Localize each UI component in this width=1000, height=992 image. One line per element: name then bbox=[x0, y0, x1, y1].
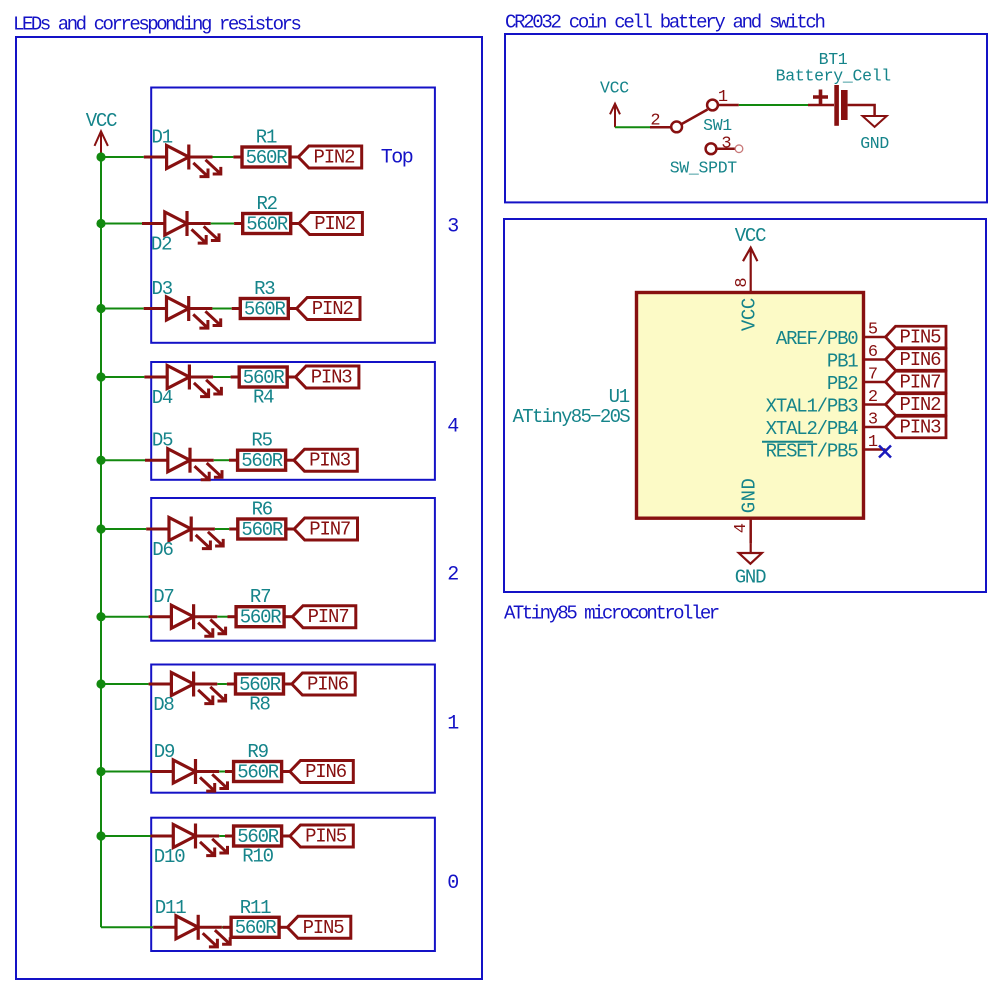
pin 5 (AREF/PB0) stub bbox=[864, 336, 886, 339]
pin 7 (PB2) stub bbox=[864, 381, 886, 384]
svg-text:Top: Top bbox=[381, 147, 413, 170]
svg-text:560R: 560R bbox=[241, 519, 283, 541]
svg-text:D8: D8 bbox=[153, 694, 174, 716]
svg-text:D9: D9 bbox=[154, 741, 175, 763]
wire R6 to global label bbox=[286, 528, 294, 531]
svg-text:4: 4 bbox=[447, 416, 458, 439]
svg-text:PIN6: PIN6 bbox=[900, 349, 942, 371]
svg-text:D11: D11 bbox=[155, 897, 186, 919]
pin 1 (RESET/PB5) stub bbox=[864, 448, 886, 451]
svg-text:ATtiny85 microcontroller: ATtiny85 microcontroller bbox=[504, 603, 719, 625]
svg-text:560R: 560R bbox=[246, 147, 288, 169]
svg-text:XTAL1/PB3: XTAL1/PB3 bbox=[766, 396, 859, 418]
svg-text:SW_SPDT: SW_SPDT bbox=[670, 159, 738, 178]
wire D5 to R5 bbox=[214, 459, 229, 461]
wire D11 to R11 bbox=[221, 926, 224, 928]
svg-text:LEDs and corresponding resisto: LEDs and corresponding resistors bbox=[13, 14, 301, 36]
LED D8 bbox=[149, 672, 226, 704]
LED D7 bbox=[149, 604, 226, 636]
wire D7 to R7 bbox=[217, 616, 227, 618]
wire VCC rail to D6 bbox=[101, 528, 146, 530]
global label PIN2 (ATtiny) bbox=[886, 394, 947, 416]
svg-text:PIN3: PIN3 bbox=[309, 450, 351, 472]
svg-text:R4: R4 bbox=[253, 387, 274, 409]
svg-text:U1: U1 bbox=[609, 386, 630, 408]
pin 6 (PB1) stub bbox=[864, 358, 886, 361]
wire R10 to global label bbox=[282, 835, 290, 838]
svg-text:R9: R9 bbox=[247, 741, 268, 763]
svg-text:C: C bbox=[739, 298, 761, 309]
svg-text:PIN3: PIN3 bbox=[900, 417, 942, 439]
resistor R7 bbox=[228, 615, 237, 618]
svg-text:560R: 560R bbox=[237, 826, 279, 848]
LED D1 bbox=[144, 145, 221, 177]
global label PIN3 (ATtiny) bbox=[886, 416, 947, 438]
wire R9 to global label bbox=[282, 770, 290, 773]
SW1 pin3 open end bbox=[735, 145, 743, 153]
svg-text:PIN6: PIN6 bbox=[305, 761, 347, 783]
wire R11 to global label bbox=[279, 926, 287, 929]
outer graphic box (ATtiny sheet) bbox=[504, 219, 986, 592]
svg-text:PIN2: PIN2 bbox=[314, 147, 356, 169]
svg-text:Battery_Cell: Battery_Cell bbox=[776, 67, 891, 86]
svg-text:560R: 560R bbox=[243, 367, 285, 389]
wire VCC rail to D1 bbox=[101, 156, 144, 158]
svg-text:PIN7: PIN7 bbox=[900, 372, 941, 394]
wire D3 to R3 bbox=[212, 308, 231, 310]
junction node row D9 bbox=[96, 767, 105, 776]
junction node row D1 bbox=[96, 152, 105, 161]
global label PIN5 (ATtiny) bbox=[886, 326, 947, 348]
pin 4 stub (GND) bbox=[749, 518, 752, 543]
svg-text:VCC: VCC bbox=[735, 225, 766, 247]
pin 3 (XTAL2/PB4) stub bbox=[864, 426, 886, 429]
svg-text:560R: 560R bbox=[244, 298, 286, 320]
outer graphic box (LED sheet) bbox=[16, 37, 482, 979]
svg-text:R6: R6 bbox=[252, 499, 273, 521]
resistor R3 bbox=[232, 307, 241, 310]
wire VCC rail to D11 bbox=[101, 926, 153, 928]
svg-text:1: 1 bbox=[868, 433, 878, 452]
svg-text:C: C bbox=[739, 309, 761, 320]
wire R7 to global label bbox=[284, 615, 292, 618]
svg-text:4: 4 bbox=[732, 523, 751, 533]
svg-text:PB2: PB2 bbox=[827, 373, 858, 395]
svg-text:D2: D2 bbox=[151, 234, 172, 256]
global label PIN3 (row D5) bbox=[294, 449, 357, 471]
LED D5 bbox=[145, 448, 222, 480]
wire D4 to R4 bbox=[213, 376, 231, 378]
svg-text:AREF/PB0: AREF/PB0 bbox=[776, 328, 858, 350]
junction node row D8 bbox=[96, 679, 105, 688]
svg-text:R11: R11 bbox=[240, 897, 271, 919]
global label PIN2 (row D1) bbox=[298, 146, 361, 168]
svg-text:3: 3 bbox=[447, 216, 458, 239]
svg-text:PIN5: PIN5 bbox=[900, 327, 942, 349]
wire VCC rail vertical bbox=[100, 157, 102, 927]
svg-text:G: G bbox=[739, 502, 761, 513]
svg-text:2: 2 bbox=[447, 564, 458, 587]
wire VCC rail to D10 bbox=[101, 835, 151, 837]
svg-text:7: 7 bbox=[868, 366, 877, 385]
svg-text:R10: R10 bbox=[242, 846, 273, 868]
group box 0-box bbox=[151, 818, 435, 951]
wire R3 to global label bbox=[288, 307, 296, 310]
global label PIN7 (ATtiny) bbox=[886, 371, 947, 393]
global label PIN7 (row D7) bbox=[292, 606, 355, 628]
wire SW1 pin1 to BT1 bbox=[739, 104, 808, 106]
global label PIN7 (row D6) bbox=[294, 518, 357, 540]
wire D8 to R8 bbox=[217, 683, 227, 685]
wire VCC rail to D4 bbox=[101, 376, 144, 378]
svg-text:SW1: SW1 bbox=[703, 116, 732, 135]
global label PIN5 (row D11) bbox=[287, 916, 350, 938]
svg-text:D: D bbox=[739, 479, 761, 490]
ground symbol GND (ATtiny) bbox=[739, 543, 762, 563]
svg-text:R1: R1 bbox=[256, 127, 277, 149]
battery BT1 bbox=[808, 85, 875, 126]
outer graphic box (battery sheet) bbox=[505, 34, 987, 202]
svg-text:GND: GND bbox=[735, 567, 766, 589]
svg-text:3: 3 bbox=[721, 135, 731, 154]
svg-text:0: 0 bbox=[447, 872, 458, 895]
wire D9 to R9 bbox=[219, 771, 225, 773]
resistor R1 bbox=[233, 156, 242, 159]
resistor R4 bbox=[231, 376, 240, 379]
junction node row D2 bbox=[96, 219, 105, 228]
wire VCC rail to D8 bbox=[101, 683, 149, 685]
wire D2 to R2 bbox=[211, 223, 234, 225]
wire VCC rail to D3 bbox=[101, 308, 144, 310]
svg-text:D7: D7 bbox=[153, 586, 173, 608]
LED D2 bbox=[142, 211, 219, 243]
resistor R9 bbox=[225, 770, 234, 773]
resistor R10 bbox=[225, 835, 234, 838]
svg-text:D6: D6 bbox=[152, 539, 173, 561]
wire R1 to global label bbox=[290, 156, 298, 159]
junction node row D4 bbox=[96, 372, 105, 381]
wire R4 to global label bbox=[287, 376, 295, 379]
svg-text:CR2032 coin cell battery and s: CR2032 coin cell battery and switch bbox=[505, 12, 824, 34]
group box 4-box bbox=[151, 362, 435, 480]
LED D9 bbox=[151, 759, 228, 791]
wire D1 to R1 bbox=[213, 156, 234, 158]
svg-text:R3: R3 bbox=[254, 278, 275, 300]
LED D4 bbox=[144, 365, 221, 397]
svg-text:ATtiny85−20S: ATtiny85−20S bbox=[513, 406, 631, 428]
global label PIN5 (row D10) bbox=[290, 825, 353, 847]
svg-text:PIN2: PIN2 bbox=[314, 213, 356, 235]
svg-text:D3: D3 bbox=[152, 278, 173, 300]
LED D3 bbox=[144, 296, 221, 328]
wire VCC to SW1 pin2 bbox=[615, 126, 650, 128]
global label PIN3 (row D4) bbox=[296, 366, 359, 388]
global label PIN6 (ATtiny) bbox=[886, 349, 947, 371]
svg-text:N: N bbox=[739, 491, 761, 501]
resistor R5 bbox=[229, 459, 238, 462]
svg-text:560R: 560R bbox=[240, 607, 282, 629]
IC U1 ATtiny85 body bbox=[637, 293, 864, 519]
svg-text:PIN7: PIN7 bbox=[308, 606, 349, 628]
svg-text:PIN2: PIN2 bbox=[900, 394, 942, 416]
svg-text:2: 2 bbox=[650, 112, 659, 131]
LED D6 bbox=[146, 517, 223, 549]
svg-text:PIN6: PIN6 bbox=[307, 674, 349, 696]
wire VCC rail to D7 bbox=[101, 616, 149, 618]
no-connect X on RESET pin bbox=[879, 446, 891, 458]
svg-text:1: 1 bbox=[447, 713, 459, 736]
svg-text:560R: 560R bbox=[239, 674, 281, 696]
junction node row D5 bbox=[96, 456, 105, 465]
resistor R8 bbox=[227, 683, 236, 686]
wire VCC rail to D5 bbox=[101, 459, 145, 461]
svg-text:VCC: VCC bbox=[86, 110, 117, 132]
svg-text:D4: D4 bbox=[152, 387, 173, 409]
svg-text:R2: R2 bbox=[256, 193, 277, 215]
wire R2 to global label bbox=[291, 222, 299, 225]
global label PIN6 (row D9) bbox=[290, 761, 353, 783]
svg-text:D5: D5 bbox=[152, 430, 173, 452]
wire VCC rail to D2 bbox=[101, 223, 142, 225]
resistor R6 bbox=[229, 528, 238, 531]
svg-text:GND: GND bbox=[860, 134, 889, 153]
switch SW1 SPDT bbox=[650, 100, 739, 155]
svg-text:560R: 560R bbox=[246, 213, 288, 235]
global label PIN2 (row D2) bbox=[299, 213, 362, 235]
resistor R2 bbox=[234, 222, 243, 225]
svg-text:PIN7: PIN7 bbox=[309, 519, 350, 541]
group box 2-box bbox=[151, 498, 435, 641]
junction node row D3 bbox=[96, 304, 105, 313]
wire D10 to R10 bbox=[219, 835, 225, 837]
svg-text:PIN3: PIN3 bbox=[311, 367, 353, 389]
svg-text:8: 8 bbox=[733, 278, 752, 288]
svg-text:PIN5: PIN5 bbox=[305, 826, 347, 848]
svg-text:R5: R5 bbox=[251, 430, 272, 452]
group box Top-box bbox=[151, 88, 435, 343]
svg-text:PIN2: PIN2 bbox=[312, 298, 354, 320]
wire R5 to global label bbox=[286, 459, 294, 462]
svg-text:2: 2 bbox=[868, 388, 877, 407]
junction node row D10 bbox=[96, 831, 105, 840]
svg-text:R7: R7 bbox=[250, 586, 270, 608]
svg-text:R8: R8 bbox=[249, 694, 270, 716]
resistor R11 bbox=[223, 926, 232, 929]
junction node row D6 bbox=[96, 524, 105, 533]
svg-text:XTAL2/PB4: XTAL2/PB4 bbox=[766, 418, 859, 440]
svg-text:3: 3 bbox=[868, 411, 878, 430]
pin 2 (XTAL1/PB3) stub bbox=[864, 403, 886, 406]
LED D11 bbox=[153, 915, 230, 947]
junction node row D7 bbox=[96, 612, 105, 621]
wire R8 to global label bbox=[284, 683, 292, 686]
group box 1-box bbox=[151, 665, 435, 793]
svg-text:VCC: VCC bbox=[600, 79, 629, 98]
svg-text:6: 6 bbox=[868, 343, 878, 362]
svg-text:PB1: PB1 bbox=[827, 351, 858, 373]
svg-text:D10: D10 bbox=[154, 846, 185, 868]
svg-text:5: 5 bbox=[868, 321, 878, 340]
global label PIN6 (row D8) bbox=[292, 673, 355, 695]
svg-text:PIN5: PIN5 bbox=[303, 917, 345, 939]
ground symbol GND (battery sheet) bbox=[863, 116, 887, 127]
svg-text:560R: 560R bbox=[241, 450, 283, 472]
LED D10 bbox=[151, 824, 228, 856]
global label PIN2 (row D3) bbox=[297, 298, 360, 320]
wire VCC rail to D9 bbox=[101, 771, 151, 773]
wire D6 to R6 bbox=[215, 528, 229, 530]
svg-text:560R: 560R bbox=[235, 917, 277, 939]
svg-text:1: 1 bbox=[718, 88, 728, 107]
svg-text:RESET/PB5: RESET/PB5 bbox=[766, 441, 859, 463]
svg-text:560R: 560R bbox=[237, 761, 279, 783]
svg-text:D1: D1 bbox=[152, 127, 173, 149]
